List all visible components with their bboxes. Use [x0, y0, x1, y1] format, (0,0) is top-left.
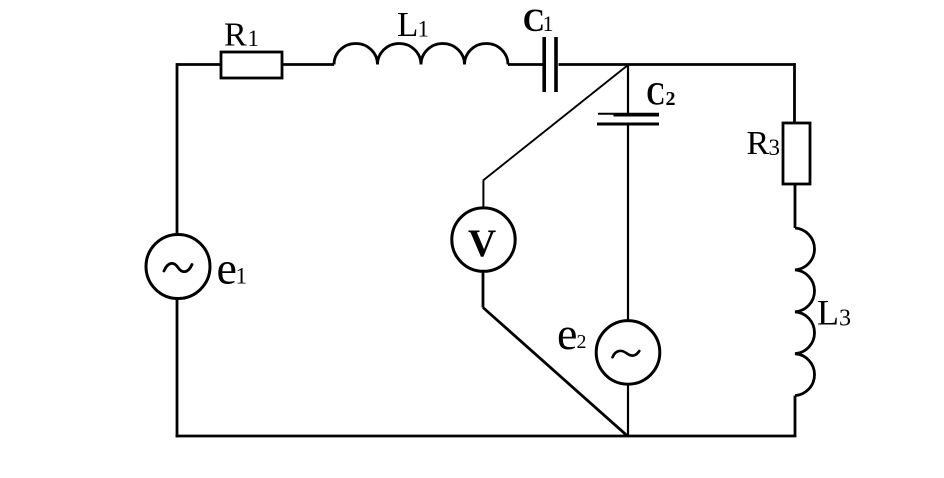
svg-text:e: e: [557, 308, 577, 359]
wire left vertical lower: [176, 298, 179, 437]
svg-text:L: L: [397, 5, 418, 44]
wire R3 to L3: [794, 184, 797, 228]
wire C1 to top-right corner: [559, 63, 795, 66]
wire voltmeter bottom lead: [482, 271, 485, 308]
wire L3 to bottom: [794, 396, 797, 436]
svg-text:2: 2: [577, 331, 587, 353]
source e2: [557, 308, 660, 384]
node A top junction: [483, 65, 628, 208]
capacitor C1: [523, 2, 556, 92]
svg-text:3: 3: [769, 135, 781, 160]
svg-text:R: R: [747, 125, 770, 162]
wire left vertical upper: [176, 63, 179, 235]
wire R1 to L1: [282, 63, 334, 66]
wire diagonal node to voltmeter upper: [483, 65, 628, 181]
wire bottom horizontal: [176, 435, 797, 438]
svg-text:1: 1: [418, 16, 430, 41]
svg-text:R: R: [224, 17, 247, 54]
wire right vertical upper: [793, 63, 796, 123]
wire C2 to e2: [627, 126, 629, 321]
wire e2 to bottom: [627, 384, 629, 436]
inductor L3: [795, 228, 851, 396]
svg-text:1: 1: [236, 264, 248, 289]
capacitor C2: [597, 76, 676, 124]
wire node to C2: [627, 65, 629, 115]
svg-text:3: 3: [839, 306, 851, 332]
svg-text:V: V: [468, 222, 496, 265]
svg-text:1: 1: [248, 26, 260, 51]
inductor L1: [334, 5, 508, 65]
source e1: [146, 235, 247, 299]
wire L1 to C1: [508, 63, 545, 66]
svg-text:1: 1: [543, 11, 554, 36]
resistor R1: [221, 17, 282, 79]
svg-text:e: e: [217, 243, 237, 294]
svg-text:L: L: [817, 292, 839, 332]
svg-text:C: C: [646, 76, 665, 112]
resistor R3: [747, 123, 811, 184]
voltmeter V: [452, 208, 515, 271]
wire voltmeter top lead: [482, 181, 484, 209]
svg-text:2: 2: [666, 88, 676, 110]
wire top-left horizontal segment: [177, 63, 221, 66]
wire diagonal voltmeter to bottom node: [483, 308, 627, 436]
